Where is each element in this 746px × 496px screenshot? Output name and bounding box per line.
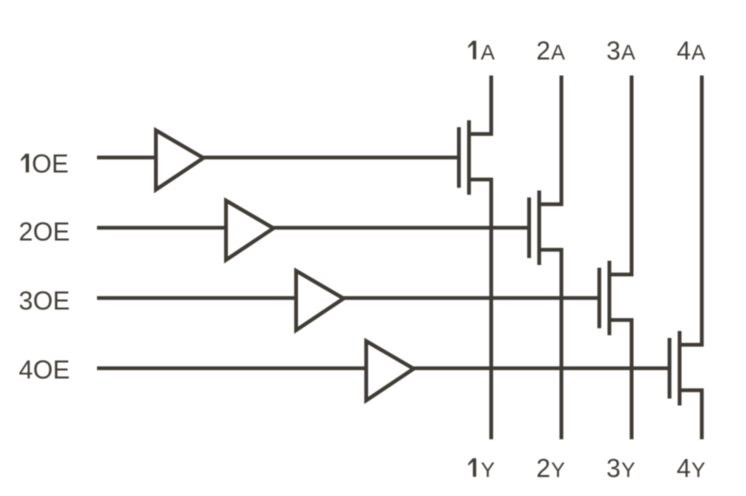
wire buffer U4 output to Q4 gate: [414, 366, 670, 370]
node 4Y label: [677, 455, 706, 483]
svg-text:2A: 2A: [536, 37, 565, 65]
svg-text:2OE: 2OE: [19, 219, 70, 247]
node 2A label: [536, 37, 565, 65]
node 1OE label: [21, 150, 69, 178]
wire 4OE input to buffer 4: [97, 366, 366, 370]
wire buffer U3 output to Q3 gate: [344, 296, 600, 300]
wire 1A column to Q1 drain: [469, 76, 491, 135]
svg-text:Y: Y: [481, 459, 495, 482]
wire Q3 source to 3Y column: [609, 320, 631, 439]
svg-text:3A: 3A: [606, 37, 635, 65]
wire Q4 source to 4Y column: [680, 390, 702, 439]
buffer U1 (OE driver): [156, 130, 204, 189]
svg-text:OE: OE: [32, 150, 69, 178]
transistor Q3 (pass MOSFET): [599, 261, 609, 336]
buffer U3 (OE driver): [296, 271, 344, 330]
buffer U4 (OE driver): [366, 341, 414, 400]
wire 3A column to Q3 drain: [609, 76, 631, 275]
transistor Q2 (pass MOSFET): [529, 190, 539, 265]
svg-text:2Y: 2Y: [536, 455, 565, 483]
wire Q2 source to 2Y column: [539, 250, 561, 440]
transistor Q1 (pass MOSFET): [459, 120, 469, 195]
svg-text:4OE: 4OE: [19, 356, 70, 384]
node 3A label: [606, 37, 635, 65]
node 1A label: [468, 41, 495, 65]
buffer U2 (OE driver): [226, 201, 274, 260]
svg-text:4Y: 4Y: [677, 455, 706, 483]
wire 3OE input to buffer 3: [97, 296, 296, 300]
node 3Y label: [606, 455, 635, 483]
node 4A label: [677, 37, 706, 65]
svg-text:3OE: 3OE: [19, 287, 70, 315]
wire Q1 source to 1Y column: [469, 180, 491, 440]
wire 4A column to Q4 drain: [680, 76, 702, 345]
wire buffer U2 output to Q2 gate: [274, 226, 530, 230]
node 1Y label: [468, 458, 495, 482]
svg-text:3Y: 3Y: [606, 455, 635, 483]
svg-text:4A: 4A: [677, 37, 706, 65]
svg-text:A: A: [481, 41, 495, 64]
node 2Y label: [536, 455, 565, 483]
wire 1OE input to buffer 1: [97, 156, 156, 160]
wire 2A column to Q2 drain: [539, 76, 561, 205]
wire buffer U1 output to Q1 gate: [203, 156, 459, 160]
transistor Q4 (pass MOSFET): [670, 331, 680, 406]
wire 2OE input to buffer 2: [97, 226, 226, 230]
